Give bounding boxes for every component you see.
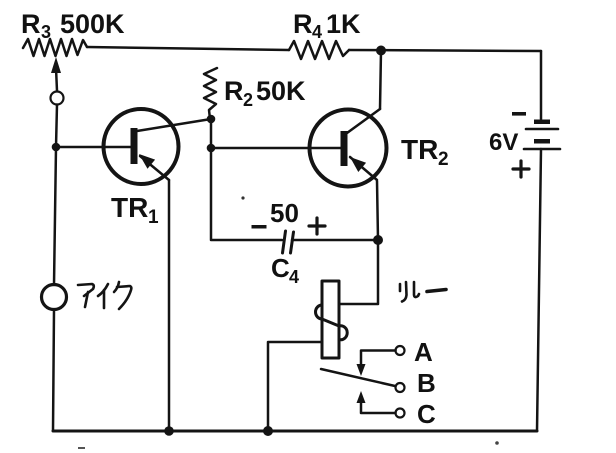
svg-text:R: R <box>293 9 313 39</box>
svg-text:B: B <box>417 368 436 398</box>
svg-text:C: C <box>417 399 436 429</box>
junction dot top rail <box>376 46 386 56</box>
label microphone (katakana ma-i-ku) <box>78 282 131 309</box>
wire TR2 collector up to rail <box>380 51 381 110</box>
scan speck <box>495 441 499 445</box>
wire right edge lower <box>537 149 541 431</box>
svg-text:4: 4 <box>289 267 299 287</box>
wire TR1 base <box>56 146 131 149</box>
wire top rail right segment <box>349 50 541 51</box>
svg-text:1: 1 <box>148 207 159 228</box>
capacitor C4 <box>283 231 294 253</box>
resistor R3 <box>23 39 87 56</box>
wire microphone to bottom rail corner <box>53 310 54 432</box>
switch armature <box>321 369 395 386</box>
label R4 1K <box>293 9 361 42</box>
wire node column <box>210 119 213 148</box>
transistor TR1 <box>104 109 212 184</box>
svg-text:A: A <box>414 337 433 367</box>
label R2 50K <box>224 76 306 110</box>
wire contact A <box>361 351 396 368</box>
node base-of-TR2 junction dot <box>207 144 216 153</box>
terminal circle on wiper lead <box>51 92 64 105</box>
svg-text:C: C <box>271 253 290 283</box>
svg-text:TR: TR <box>111 192 148 223</box>
battery B1 6V <box>524 120 560 150</box>
junction dot emitter-rail <box>164 426 174 436</box>
scan speck <box>78 447 85 449</box>
node base junction dot <box>52 143 61 152</box>
switch contact A circle <box>396 346 405 355</box>
svg-text:500K: 500K <box>60 9 125 39</box>
node collector junction dot <box>207 115 216 124</box>
junction dot emitter node <box>373 235 383 245</box>
wire left edge down to microphone <box>54 147 56 285</box>
switch contact C circle <box>396 409 405 418</box>
transistor TR2 <box>310 109 387 187</box>
svg-text:R: R <box>224 76 244 106</box>
svg-text:R: R <box>21 9 41 39</box>
relay coil <box>316 281 348 358</box>
svg-text:3: 3 <box>41 22 51 42</box>
wire C4 to emitter node <box>292 239 378 242</box>
label TR1 <box>111 192 159 228</box>
wire emitter node to relay <box>339 240 378 304</box>
svg-text:6V: 6V <box>489 129 518 156</box>
svg-text:50K: 50K <box>256 76 306 106</box>
wire wiper to base node <box>56 105 57 148</box>
switch contact B circle <box>396 383 405 392</box>
label plus of C4 <box>309 218 325 234</box>
wire TR2 emitter down to node <box>377 181 378 240</box>
label R3 500K <box>21 9 125 42</box>
label battery minus <box>512 112 526 116</box>
arrow toward B from C side <box>357 391 366 403</box>
label C4 <box>271 253 299 287</box>
wire contact C <box>361 399 396 413</box>
label 50 <box>270 198 299 228</box>
wire top rail left segment <box>87 47 289 50</box>
resistor R2 <box>204 68 217 119</box>
label minus of C4 <box>252 225 267 229</box>
wire right edge upper <box>540 51 543 119</box>
label battery plus <box>513 161 529 177</box>
wire relay to bottom rail <box>268 342 322 431</box>
svg-text:4: 4 <box>312 22 322 42</box>
resistor R4 <box>289 41 349 59</box>
potentiometer wiper arrow of R3 <box>51 57 61 91</box>
junction dot relay-rail <box>263 426 273 436</box>
label relay (katakana ri-re-) <box>400 282 446 302</box>
svg-text:TR: TR <box>401 134 438 165</box>
svg-text:1K: 1K <box>326 9 361 39</box>
wire node down to C4 <box>211 148 282 240</box>
wire TR1 emitter to bottom rail <box>168 180 171 431</box>
microphone MIC <box>42 285 67 310</box>
label 6V <box>489 129 518 156</box>
svg-text:2: 2 <box>438 149 449 170</box>
svg-text:2: 2 <box>243 90 253 110</box>
wire bottom rail <box>53 430 537 433</box>
wire TR2 base <box>211 147 341 150</box>
label TR2 <box>401 134 449 170</box>
scan speck <box>241 196 244 199</box>
svg-text:50: 50 <box>270 198 299 228</box>
arrow toward B from A side <box>357 364 366 376</box>
labels A B C <box>414 337 436 429</box>
